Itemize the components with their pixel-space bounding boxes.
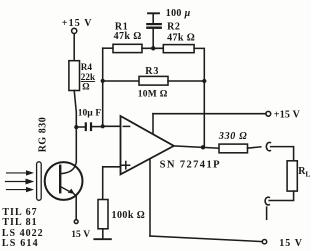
svg-text:RL: RL [298, 166, 310, 179]
node R1-R2 junction dot [151, 46, 155, 50]
resistor 330 [219, 144, 248, 153]
svg-text:10M Ω: 10M Ω [138, 90, 168, 100]
resistor 100k [98, 200, 108, 229]
svg-text:RG 830: RG 830 [38, 117, 49, 153]
wire non-inverting input [103, 167, 121, 200]
wire RL to connector bottom [269, 191, 293, 200]
capacitor 100u plates [146, 27, 162, 29]
wire R1 to junction [142, 47, 163, 49]
svg-text:100k Ω: 100k Ω [112, 210, 146, 221]
light arrow 3 [7, 189, 27, 191]
wire V+ stub into op-amp [152, 114, 154, 134]
node emitter terminal [74, 220, 78, 224]
label R4 value [81, 62, 96, 91]
wire emitter down [75, 195, 77, 219]
wire top line to R1 [103, 47, 113, 49]
svg-text:R4: R4 [81, 62, 93, 72]
connector jack bottom [265, 197, 269, 205]
node +15V left terminal [72, 28, 77, 33]
op-amp plus sign [122, 162, 130, 169]
connector pin stub bottom [266, 207, 268, 219]
svg-text:F: F [95, 109, 101, 119]
wire +15V to R4 [73, 34, 75, 61]
wire left vertical node A column [102, 48, 104, 126]
node R3-right junction dot [202, 79, 206, 83]
capacitor 100u top stub [152, 14, 154, 23]
label R3 [138, 66, 168, 100]
wire 330 to connector pin [248, 147, 261, 148]
svg-text:+15 V: +15 V [274, 109, 301, 120]
wire connector to RL [271, 147, 294, 161]
capacitor 100u wire down [152, 29, 154, 47]
connector jack top [266, 142, 270, 150]
svg-text:47k Ω: 47k Ω [167, 33, 195, 44]
svg-text:SN 72741P: SN 72741P [160, 159, 221, 170]
label R1 [114, 22, 142, 42]
wire +15V supply line [153, 113, 266, 115]
wire V- stub from op-amp [149, 159, 151, 236]
svg-text:330 Ω: 330 Ω [218, 131, 247, 142]
resistor R2 [163, 45, 194, 53]
wire node A to op-amp inverting input [103, 125, 121, 127]
transistor emitter interior [61, 187, 76, 196]
svg-text:47k Ω: 47k Ω [114, 31, 142, 42]
wire node B to cap [78, 126, 84, 128]
light arrow 2 [6, 181, 27, 183]
node -15V terminal [262, 240, 266, 244]
transistor Q1 phototransistor circle [45, 162, 83, 200]
label TIL 67 [2, 207, 44, 249]
wire R2 to feedback column [194, 48, 204, 146]
svg-text:R2: R2 [167, 22, 180, 33]
wire cap to node A [92, 126, 101, 128]
node +15V right terminal [266, 111, 271, 116]
node B junction dot [74, 125, 78, 129]
wire R3 right [168, 80, 204, 82]
svg-text:22k: 22k [81, 72, 96, 82]
node A junction dot [101, 124, 105, 128]
svg-text:10µ: 10µ [78, 108, 94, 118]
resistor R4 [69, 61, 80, 91]
light arrow 1 [7, 172, 27, 174]
svg-text:TIL 81: TIL 81 [2, 217, 37, 228]
svg-text:LS 614: LS 614 [2, 238, 39, 249]
node R3-left junction dot [101, 79, 105, 83]
svg-text:15 V: 15 V [279, 238, 303, 249]
op-amp minus sign [123, 125, 129, 127]
label 10uF [78, 108, 102, 118]
ground stub under 100k [102, 229, 104, 239]
svg-text:15 V: 15 V [71, 230, 90, 240]
wire R3 left [103, 80, 139, 82]
node output junction dot [201, 145, 205, 149]
wire R4 to node B [74, 91, 76, 162]
resistor R3 [139, 76, 168, 85]
svg-text:Ω: Ω [82, 82, 89, 92]
svg-text:R3: R3 [145, 66, 159, 77]
wire -15V rail [150, 236, 262, 242]
transistor collector interior [61, 162, 76, 174]
svg-text:100 µ: 100 µ [166, 8, 191, 19]
resistor R1 [113, 44, 142, 52]
svg-text:+15 V: +15 V [62, 18, 93, 29]
photo window bar [37, 162, 42, 201]
wire op-amp output [174, 146, 219, 148]
capacitor C 10uF plates [85, 122, 87, 131]
transistor emitter arrowhead [68, 189, 75, 194]
label R2 [167, 22, 195, 44]
op-amp U1 triangle [121, 116, 174, 174]
transistor base bar [59, 166, 61, 192]
resistor RL [287, 161, 297, 191]
